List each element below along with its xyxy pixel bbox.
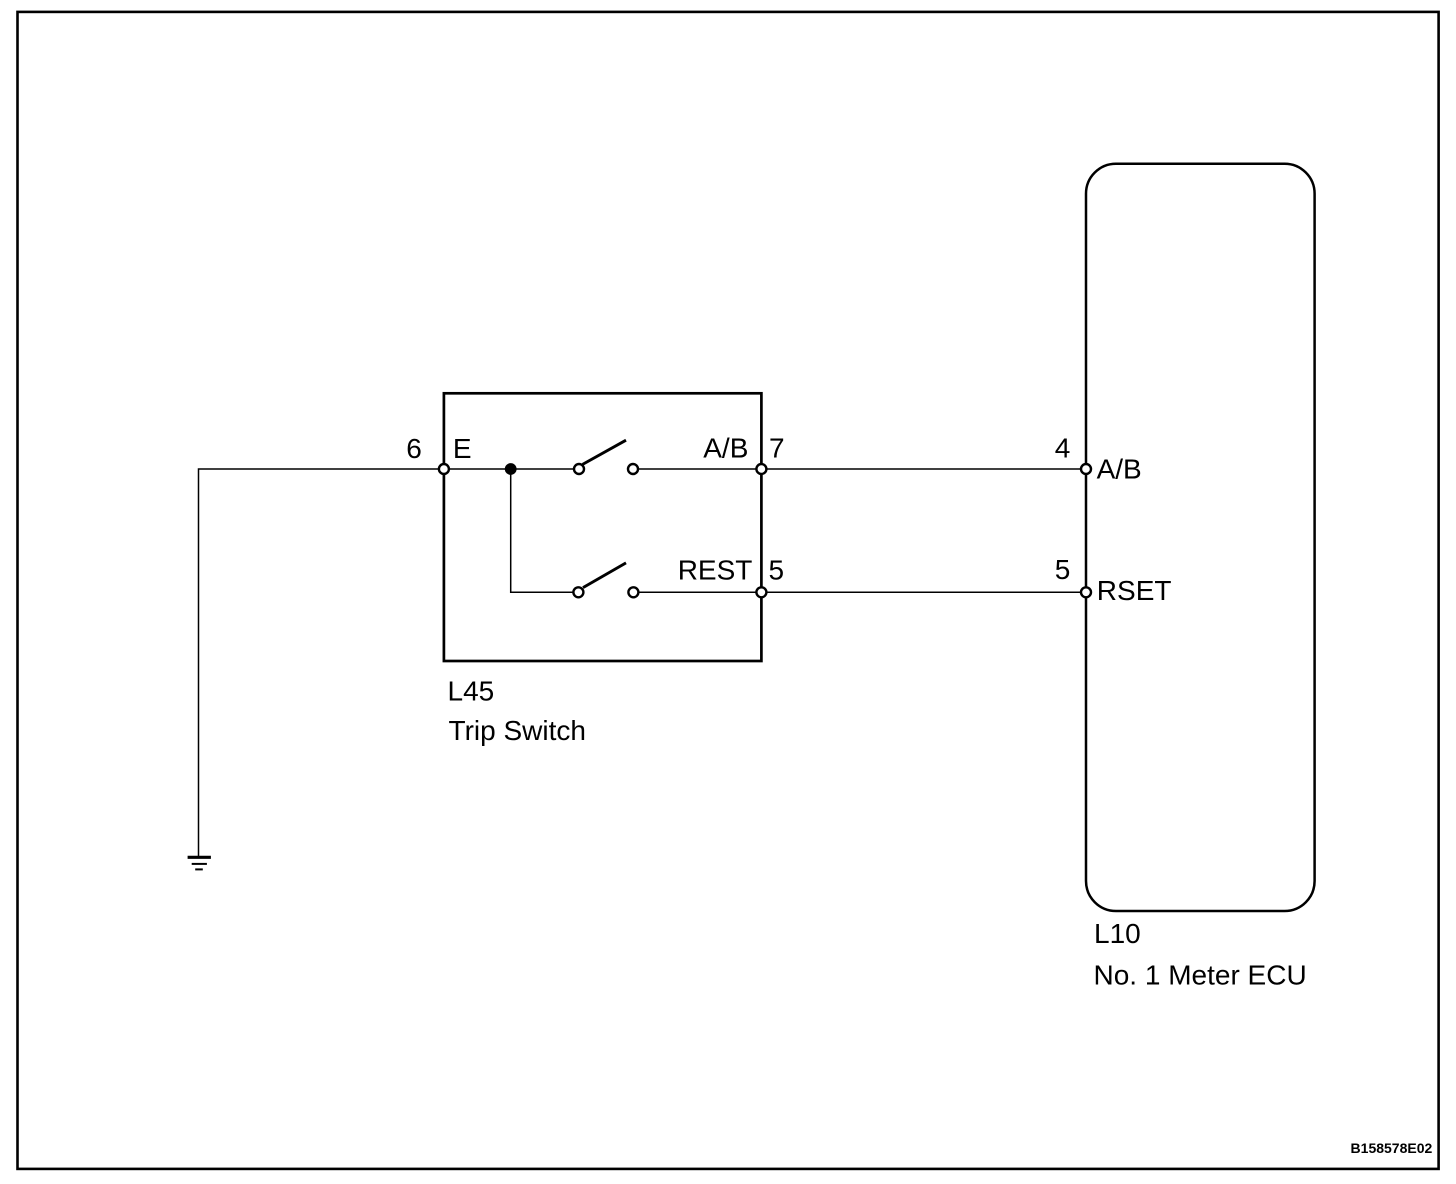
switch REST left contact — [573, 587, 583, 597]
svg-text:L10: L10 — [1094, 918, 1141, 949]
wire pin6 to A/B left contact — [444, 468, 579, 470]
switch REST lever — [583, 563, 626, 588]
svg-text:A/B: A/B — [703, 433, 748, 464]
svg-text:B158578E02: B158578E02 — [1351, 1140, 1433, 1156]
svg-text:REST: REST — [678, 555, 753, 586]
pin 6 circle — [439, 464, 449, 474]
trip switch L45 box — [444, 393, 762, 661]
svg-text:7: 7 — [769, 433, 785, 464]
pin 7 circle — [756, 464, 766, 474]
pin 4 circle L10 — [1081, 464, 1091, 474]
switch REST right contact — [628, 587, 638, 597]
svg-text:E: E — [453, 433, 472, 464]
switch A/B left contact — [574, 464, 584, 474]
svg-text:No. 1 Meter ECU: No. 1 Meter ECU — [1094, 959, 1307, 990]
svg-text:RSET: RSET — [1097, 575, 1172, 606]
svg-text:4: 4 — [1055, 433, 1071, 464]
switch A/B lever — [583, 440, 626, 464]
svg-text:L45: L45 — [448, 676, 495, 707]
node E junction — [505, 463, 517, 475]
pin 5 circle L45 — [756, 587, 766, 597]
ECU L10 box — [1086, 164, 1315, 911]
switch A/B right contact — [628, 464, 638, 474]
svg-text:Trip Switch: Trip Switch — [449, 715, 586, 746]
ground — [188, 857, 211, 869]
svg-text:5: 5 — [769, 555, 785, 586]
svg-text:5: 5 — [1055, 554, 1071, 585]
wire junction drop to REST branch — [511, 469, 579, 592]
svg-text:A/B: A/B — [1097, 453, 1142, 484]
wire A/B right contact to ECU pin 4 — [633, 468, 1086, 470]
pin 5 circle L10 — [1081, 587, 1091, 597]
wire REST right contact to ECU pin 5 — [633, 591, 1086, 593]
wire from ground riser to pin 6 — [199, 469, 444, 857]
svg-text:6: 6 — [406, 433, 422, 464]
